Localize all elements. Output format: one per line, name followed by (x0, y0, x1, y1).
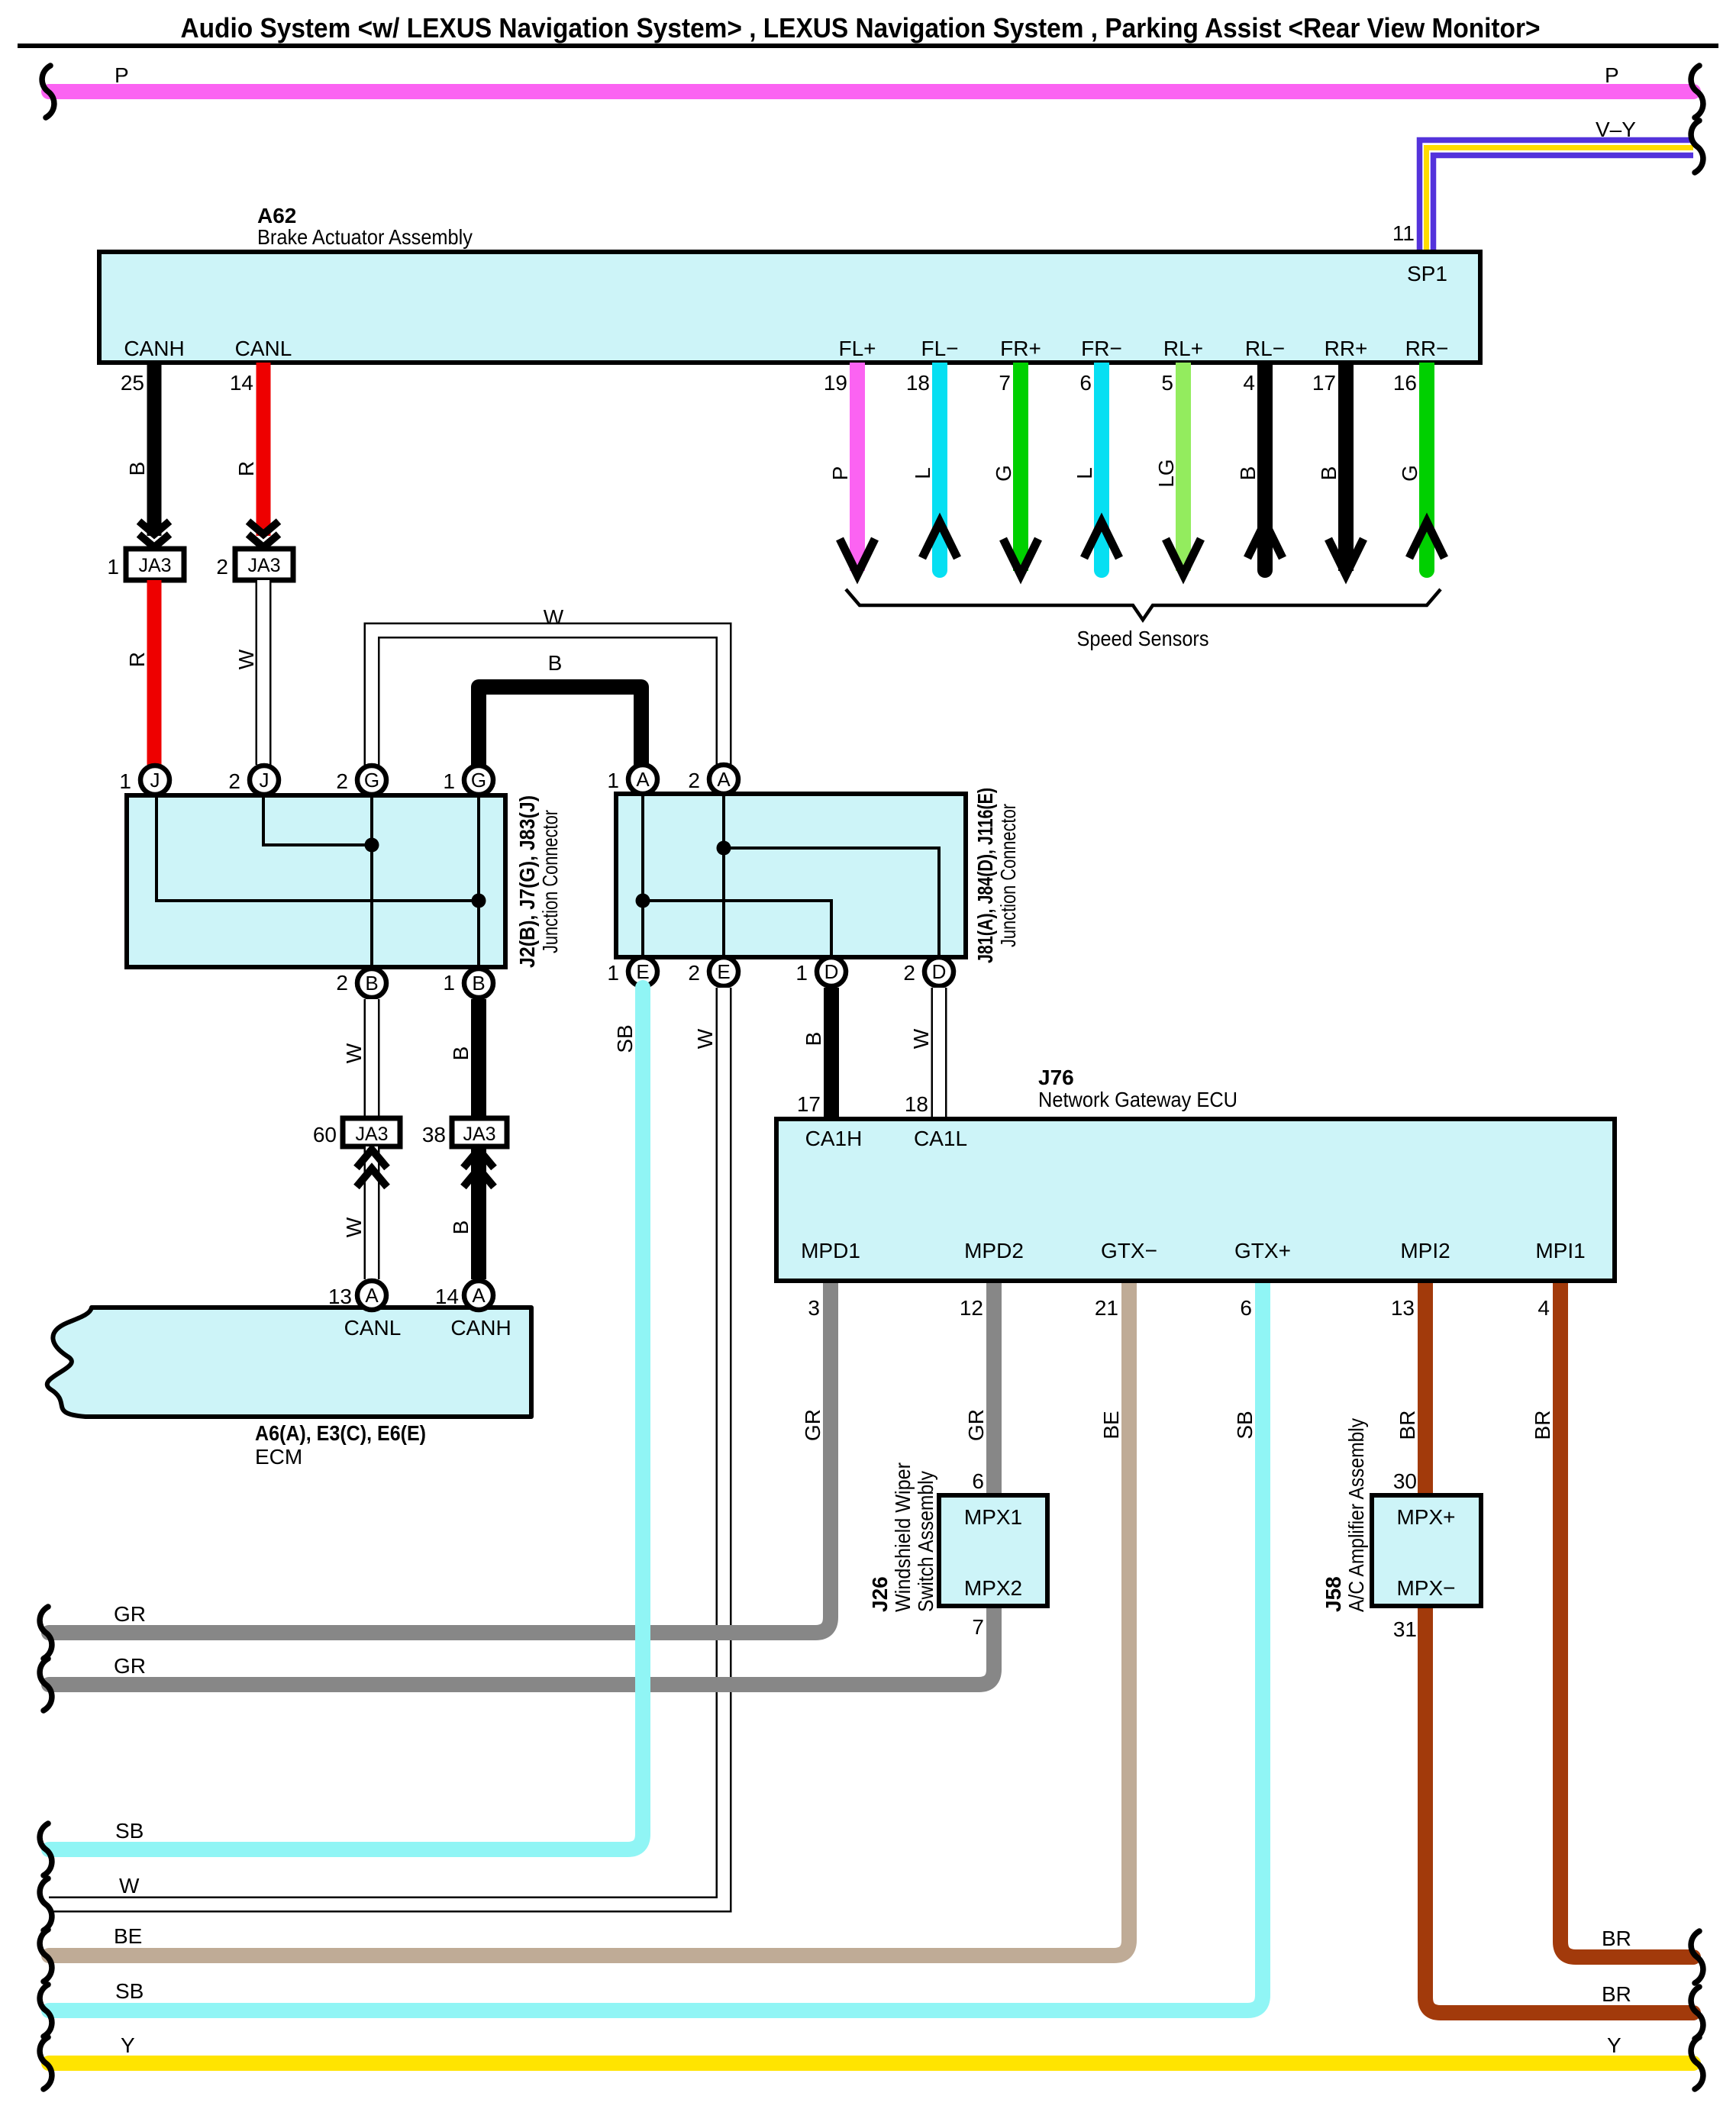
svg-text:J26: J26 (868, 1576, 892, 1612)
svg-text:16: 16 (1393, 371, 1417, 395)
A62 pin label FL+ (838, 337, 876, 360)
J76 pin number 4 (1538, 1296, 1550, 1320)
svg-text:13: 13 (328, 1285, 352, 1308)
label P (speed sensor wire) (828, 466, 852, 481)
wire BR MPI2 through J58 (1418, 1281, 1433, 1495)
J76 pin number 6 (1240, 1296, 1252, 1320)
A62 pin number 14 (230, 371, 253, 395)
junction 1 pin circle 1B (464, 969, 493, 998)
svg-text:Brake Actuator Assembly: Brake Actuator Assembly (257, 225, 473, 249)
switch J26 Windshield Wiper box (939, 1495, 1047, 1606)
svg-text:2: 2 (228, 769, 240, 793)
wire SB 1E down to left edge (49, 988, 643, 1849)
junction 2 pin circle 1A (628, 765, 657, 794)
label Y left (121, 2033, 135, 2057)
wire V-Y inner violet (1434, 156, 1694, 254)
break left W wire (40, 1878, 52, 1930)
svg-text:17: 17 (1312, 371, 1336, 395)
svg-text:18: 18 (906, 371, 930, 395)
svg-text:A: A (365, 1284, 379, 1307)
break left of wire P (42, 66, 54, 118)
junction 2 pin circle 1E (628, 957, 657, 986)
svg-text:7: 7 (999, 371, 1011, 395)
svg-text:B: B (548, 651, 563, 675)
junction 2 name 2 (996, 804, 1020, 947)
svg-text:2: 2 (336, 971, 348, 995)
A62 pin number 16 (1393, 371, 1417, 395)
svg-text:A: A (472, 1284, 486, 1307)
svg-text:2: 2 (688, 769, 700, 792)
svg-text:21: 21 (1095, 1296, 1118, 1320)
label L (speed sensor wire) (1073, 467, 1096, 479)
A62 pin number 5 (1161, 371, 1173, 395)
label B (449, 1221, 473, 1235)
svg-text:SB: SB (115, 1819, 144, 1843)
svg-text:Junction Connector: Junction Connector (996, 804, 1020, 947)
svg-text:BR: BR (1396, 1411, 1419, 1440)
svg-text:CANL: CANL (344, 1316, 402, 1340)
svg-text:3: 3 (808, 1296, 820, 1320)
ECU J76 Network Gateway box (776, 1119, 1615, 1281)
label 1 (pin 1D) (795, 961, 808, 985)
svg-text:SB: SB (1233, 1411, 1257, 1439)
amplifier J58 A/C box (1372, 1495, 1481, 1606)
svg-text:SB: SB (115, 1979, 144, 2003)
pin 11 label (1392, 221, 1415, 245)
wire W 2D to J76 CA1L (931, 988, 947, 1117)
svg-text:D: D (824, 960, 839, 983)
label BR right 1 (1602, 1927, 1631, 1950)
label SB (1E wire) (613, 1024, 637, 1053)
svg-text:BR: BR (1602, 1927, 1631, 1950)
svg-text:6: 6 (1240, 1296, 1252, 1320)
svg-text:1: 1 (107, 555, 119, 579)
wire B JA3-38 to ECM 14A (471, 1146, 486, 1279)
svg-text:4: 4 (1538, 1296, 1550, 1320)
break left GR wire 2 (40, 1659, 52, 1711)
wire W 2E down to left edge (49, 988, 724, 1904)
svg-text:A: A (636, 768, 650, 791)
wire R from A62 pin 14 (CANL) (257, 363, 271, 536)
svg-text:R: R (125, 652, 149, 667)
label W (bottom wire) (119, 1874, 140, 1898)
svg-text:A/C Amplifier Assembly: A/C Amplifier Assembly (1344, 1418, 1368, 1612)
svg-text:1: 1 (119, 769, 131, 793)
label MPX2 (964, 1576, 1022, 1600)
label P left (115, 63, 129, 87)
pin number 18 (905, 1092, 928, 1116)
arrow up on B wire (463, 1150, 494, 1187)
svg-text:B: B (125, 462, 149, 476)
label Speed Sensors (1077, 627, 1209, 650)
label GR (MPD1 wire) (801, 1409, 824, 1441)
svg-text:G: G (364, 769, 379, 792)
svg-text:A62: A62 (257, 204, 296, 227)
speed sensor wire B x1657 (1247, 363, 1283, 578)
svg-text:2: 2 (688, 961, 700, 985)
label W (2D wire) (909, 1028, 933, 1049)
svg-text:J: J (260, 769, 269, 792)
speed sensor wire LG x1550 (1166, 363, 1201, 575)
label 2 (pin 2D) (903, 961, 915, 985)
A62 pin label FR&#8722; (1081, 337, 1122, 360)
svg-text:P: P (1605, 63, 1619, 87)
label 60 (313, 1123, 337, 1146)
label BR (MPI2 wire) (1396, 1411, 1419, 1440)
label SP1 (1407, 262, 1447, 285)
svg-text:G: G (992, 465, 1015, 482)
svg-text:W: W (544, 605, 564, 629)
label L (speed sensor wire) (911, 467, 934, 479)
wire GR MPD2 to J26 (986, 1281, 1002, 1495)
label 1 (JA3) (107, 555, 119, 579)
label W (bridge) (544, 605, 564, 629)
svg-text:6: 6 (972, 1469, 984, 1493)
pin number 6 (J26) (972, 1469, 984, 1493)
A62 pin number 6 (1079, 371, 1092, 395)
svg-text:R: R (234, 461, 258, 476)
svg-text:1: 1 (607, 961, 619, 985)
label SB (wire 2) (115, 1979, 144, 2003)
junction 1 pin circle 2J (250, 766, 279, 795)
break right BR wire 2 (1691, 1987, 1703, 2039)
wire R JA3-1 to junction 1J (147, 580, 162, 765)
junction 1 pin circle 1J (140, 766, 169, 795)
junction 1 pin circle 2G (357, 766, 386, 795)
junction 1 pin circle 2B (357, 969, 386, 998)
break right of wire P (1691, 66, 1703, 118)
svg-text:J: J (150, 769, 160, 792)
svg-text:JA3: JA3 (138, 555, 171, 576)
label B (speed sensor wire) (1236, 466, 1260, 481)
A62 pin label FR+ (1000, 337, 1041, 360)
J58 name 2 (1344, 1418, 1368, 1612)
svg-text:FR+: FR+ (1000, 337, 1041, 360)
label GR (MPD2 wire) (964, 1409, 988, 1441)
label 2 (pin 2A) (688, 769, 700, 792)
label GR (wire 2) (114, 1654, 146, 1678)
break left SB wire 1 (40, 1824, 52, 1875)
label 1 (pin 1G) (443, 769, 455, 793)
label MPX1 (964, 1505, 1022, 1529)
junction 2 pin circle 2A (709, 765, 738, 794)
svg-text:J76: J76 (1038, 1066, 1074, 1089)
label BR (MPI1 wire) (1531, 1411, 1554, 1440)
svg-text:LG: LG (1154, 459, 1178, 487)
label A62 (257, 204, 296, 227)
svg-text:18: 18 (905, 1092, 928, 1116)
svg-text:14: 14 (230, 371, 253, 395)
label B (449, 1046, 473, 1061)
speed sensor wire G x1337 (1003, 363, 1038, 575)
label CANL (ECM) (344, 1316, 402, 1340)
label P right (1605, 63, 1619, 87)
label W (342, 1043, 366, 1063)
J26 name (868, 1576, 892, 1612)
svg-text:CANL: CANL (235, 337, 292, 360)
label BR right 2 (1602, 1982, 1631, 2006)
svg-text:P: P (828, 466, 852, 481)
J76 pin label MPD2 (964, 1239, 1024, 1262)
speed sensor wire L x1231 (922, 363, 957, 578)
svg-text:1: 1 (443, 971, 455, 995)
svg-text:W: W (342, 1217, 366, 1237)
svg-text:MPX−: MPX− (1396, 1576, 1455, 1600)
J26 name 3 (914, 1471, 937, 1612)
label Brake Actuator Assembly (257, 225, 473, 249)
label 1 (pin 1A) (607, 769, 619, 792)
svg-text:RL−: RL− (1245, 337, 1285, 360)
label LG (speed sensor wire) (1154, 459, 1178, 487)
title rule (18, 44, 1718, 48)
svg-text:V–Y: V–Y (1596, 118, 1636, 141)
svg-text:L: L (911, 467, 934, 479)
svg-text:1: 1 (443, 769, 455, 793)
break left BE wire (40, 1930, 52, 1982)
label 2 (JA3) (216, 555, 228, 579)
wire Y bottom (49, 2056, 1693, 2071)
connector JA3 pin 2 (235, 549, 293, 580)
svg-text:30: 30 (1393, 1469, 1417, 1493)
svg-text:JA3: JA3 (247, 555, 280, 576)
A62 pin label RR&#8722; (1405, 337, 1449, 360)
label CANH (ECM) (450, 1316, 511, 1340)
svg-text:12: 12 (960, 1296, 983, 1320)
speed sensor wire L x1443 (1084, 363, 1119, 578)
A62 pin label CANH (124, 337, 184, 360)
svg-text:B: B (802, 1032, 825, 1046)
label 2 (pin 2B) (336, 971, 348, 995)
label Network Gateway ECU (1038, 1088, 1237, 1111)
A62 pin number 25 (121, 371, 144, 395)
svg-text:GR: GR (801, 1409, 824, 1441)
label SB (wire 1) (115, 1819, 144, 1843)
pin number 30 (J58) (1393, 1469, 1417, 1493)
svg-text:B: B (1236, 466, 1260, 481)
svg-text:RR−: RR− (1405, 337, 1449, 360)
ECM pin circle 13A (357, 1281, 386, 1310)
label BE (GTX- wire) (1099, 1411, 1123, 1439)
label CA1H (805, 1127, 863, 1150)
wire BR J58 pin31 to right edge (1425, 1600, 1693, 2013)
svg-text:FL+: FL+ (838, 337, 876, 360)
label MPX+ (1396, 1505, 1455, 1529)
junction connector 2 internal wiring (636, 794, 940, 957)
wire V-Y yellow stripe (1427, 148, 1694, 254)
svg-text:B: B (449, 1046, 473, 1061)
A62 pin number 18 (906, 371, 930, 395)
junction 2 pin circle 2D (924, 957, 954, 986)
svg-text:2: 2 (216, 555, 228, 579)
svg-text:B: B (449, 1221, 473, 1235)
speed sensor wire B x1763 (1328, 363, 1363, 575)
svg-text:BR: BR (1531, 1411, 1554, 1440)
svg-text:Windshield Wiper: Windshield Wiper (891, 1462, 915, 1612)
label 2 (pin 2G) (336, 769, 348, 793)
svg-text:2: 2 (336, 769, 348, 793)
label Y right (1607, 2033, 1621, 2057)
svg-text:A: A (717, 768, 731, 791)
svg-text:P: P (115, 63, 129, 87)
svg-text:5: 5 (1161, 371, 1173, 395)
svg-text:MPD1: MPD1 (801, 1239, 860, 1262)
svg-text:MPX+: MPX+ (1396, 1505, 1455, 1529)
svg-text:CANH: CANH (124, 337, 184, 360)
J76 pin number 12 (960, 1296, 983, 1320)
svg-text:17: 17 (797, 1092, 821, 1116)
wire B from A62 pin 25 (CANH) (147, 363, 162, 536)
pin number 7 (J26) (972, 1615, 984, 1639)
J76 pin label MPI1 (1535, 1239, 1585, 1262)
label B (1D wire) (802, 1032, 825, 1046)
svg-text:13: 13 (1391, 1296, 1415, 1320)
break left GR wire 1 (40, 1607, 52, 1659)
wire B bridge 1G-1A (479, 687, 641, 771)
speed sensors brace (846, 589, 1441, 620)
pin number 17 (797, 1092, 821, 1116)
wire W JA3-2 to junction 2J (256, 580, 272, 765)
label B (bridge) (548, 651, 563, 675)
svg-text:MPI1: MPI1 (1535, 1239, 1585, 1262)
svg-text:ECM: ECM (255, 1445, 302, 1469)
wire GR from J26 pin7 to left edge (49, 1600, 994, 1685)
label GR (wire 1) (114, 1602, 146, 1626)
svg-text:Speed Sensors: Speed Sensors (1077, 627, 1209, 650)
svg-text:G: G (471, 769, 486, 792)
J76 pin label MPI2 (1400, 1239, 1450, 1262)
svg-text:W: W (693, 1028, 717, 1049)
label 14 (ECM) (435, 1285, 459, 1308)
svg-text:B: B (1317, 466, 1341, 481)
svg-text:FR−: FR− (1081, 337, 1122, 360)
svg-text:JA3: JA3 (463, 1124, 495, 1145)
label 13 (ECM) (328, 1285, 352, 1308)
svg-text:RR+: RR+ (1325, 337, 1368, 360)
svg-text:J2(B), J7(G), J83(J): J2(B), J7(G), J83(J) (515, 795, 539, 968)
svg-text:W: W (909, 1028, 933, 1049)
label 2 (pin 2J) (228, 769, 240, 793)
J76 pin number 3 (808, 1296, 820, 1320)
svg-text:JA3: JA3 (355, 1124, 388, 1145)
svg-text:MPX2: MPX2 (964, 1576, 1022, 1600)
svg-text:2: 2 (903, 961, 915, 985)
label G (speed sensor wire) (992, 465, 1015, 482)
svg-text:W: W (342, 1043, 366, 1063)
svg-text:BE: BE (114, 1924, 142, 1948)
svg-text:W: W (234, 649, 258, 669)
label W (234, 649, 258, 669)
J76 pin number 21 (1095, 1296, 1118, 1320)
J58 name (1321, 1576, 1345, 1612)
break right of wire V-Y (1691, 121, 1703, 173)
label W (2E wire) (693, 1028, 717, 1049)
svg-text:Y: Y (121, 2033, 135, 2057)
label 1 (pin 1J) (119, 769, 131, 793)
A62 pin number 17 (1312, 371, 1336, 395)
J26 name 2 (891, 1462, 915, 1612)
wire W JA3-60 to ECM 13A (364, 1146, 380, 1279)
svg-text:L: L (1073, 467, 1096, 479)
svg-text:BR: BR (1602, 1982, 1631, 2006)
svg-text:60: 60 (313, 1123, 337, 1146)
svg-text:GTX−: GTX− (1101, 1239, 1157, 1262)
svg-text:6: 6 (1079, 371, 1092, 395)
svg-text:J58: J58 (1321, 1576, 1345, 1612)
svg-text:FL−: FL− (921, 337, 958, 360)
break left SB wire 2 (40, 1985, 52, 2036)
label W (342, 1217, 366, 1237)
svg-text:E: E (717, 960, 730, 983)
label SB (GTX+ wire) (1233, 1411, 1257, 1439)
junction connector J2(B),J7(G),J83(J) box (127, 795, 505, 967)
svg-text:CA1L: CA1L (914, 1127, 967, 1150)
wire P (top) (49, 84, 1693, 99)
label MPX&#8722; (1396, 1576, 1455, 1600)
svg-text:E: E (636, 960, 649, 983)
break left Y wire (40, 2037, 52, 2089)
speed sensor wire G x1869 (1409, 363, 1444, 578)
junction 2 pin circle 2E (709, 957, 738, 986)
label R (125, 652, 149, 667)
J76 pin label MPD1 (801, 1239, 860, 1262)
label 1 (pin 1E) (607, 961, 619, 985)
junction connector J81(A),J84(D),J116(E) box (616, 794, 966, 957)
J76 pin label GTX+ (1234, 1239, 1291, 1262)
label B (speed sensor wire) (1317, 466, 1341, 481)
junction connector 1 internal wiring (156, 795, 486, 967)
title (181, 12, 1541, 44)
J76 pin label GTX&#8722; (1101, 1239, 1157, 1262)
arrow on CANL wire (248, 521, 279, 547)
connector JA3 pin 1 (126, 549, 184, 580)
svg-text:14: 14 (435, 1285, 459, 1308)
svg-text:GR: GR (114, 1654, 146, 1678)
A62 pin number 19 (824, 371, 847, 395)
label 38 (422, 1123, 446, 1146)
wire GR from J76 MPD1 to left edge (49, 1281, 831, 1633)
A62 pin label RL&#8722; (1245, 337, 1285, 360)
svg-text:G: G (1398, 465, 1421, 482)
svg-text:MPD2: MPD2 (964, 1239, 1024, 1262)
svg-text:Switch Assembly: Switch Assembly (914, 1471, 937, 1612)
svg-text:J81(A), J84(D), J116(E): J81(A), J84(D), J116(E) (973, 788, 997, 963)
svg-text:RL+: RL+ (1163, 337, 1203, 360)
svg-text:D: D (932, 960, 947, 983)
svg-text:4: 4 (1243, 371, 1255, 395)
svg-text:Network Gateway ECU: Network Gateway ECU (1038, 1088, 1237, 1111)
wire B 1D to J76 CA1H (824, 988, 839, 1117)
connector JA3 pin 60 (343, 1118, 400, 1146)
label V-Y (1596, 118, 1636, 141)
svg-text:11: 11 (1392, 221, 1415, 245)
A62 pin label FL&#8722; (921, 337, 958, 360)
svg-text:1: 1 (607, 769, 619, 792)
svg-text:Y: Y (1607, 2033, 1621, 2057)
arrow on CANH wire (139, 521, 169, 547)
label A6(A), E3(C), E6(E) (255, 1421, 426, 1445)
svg-text:MPI2: MPI2 (1400, 1239, 1450, 1262)
connector JA3 pin 38 (452, 1118, 507, 1146)
svg-text:Audio System <w/ LEXUS Navigat: Audio System <w/ LEXUS Navigation System… (181, 12, 1541, 44)
label ECM (255, 1445, 302, 1469)
svg-text:BE: BE (1099, 1411, 1123, 1439)
label 1 (pin 1B) (443, 971, 455, 995)
junction 1 name 2 (538, 810, 562, 953)
svg-text:SB: SB (613, 1024, 637, 1053)
ECM box (47, 1308, 531, 1417)
svg-text:CANH: CANH (450, 1316, 511, 1340)
A62 pin label RL+ (1163, 337, 1203, 360)
